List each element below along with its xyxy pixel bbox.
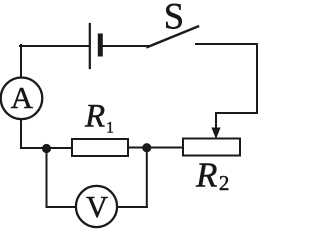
wire top-left horizontal	[20, 45, 89, 47]
svg-text:S: S	[164, 0, 184, 36]
rheostat R2 body	[183, 139, 240, 156]
resistor R1 body	[72, 139, 128, 156]
voltmeter V1 circle	[76, 186, 117, 227]
wire battery to switch	[100, 45, 148, 47]
voltmeter branch: left drop	[46, 149, 48, 207]
svg-text:A: A	[11, 80, 34, 115]
wire jog toward rheostat arrow	[216, 112, 257, 114]
rheostat wiper arrowhead	[211, 128, 220, 140]
wire between R1 and R2	[128, 147, 183, 149]
rheostat wiper arrow shaft	[215, 113, 217, 129]
battery cell: long plate (positive)	[89, 24, 91, 68]
left vertical wire (ammeter to bottom row)	[20, 119, 22, 148]
wire switch to top-right corner	[196, 43, 257, 45]
junction node left (R1 left / voltmeter tap)	[42, 144, 51, 153]
voltmeter branch: right horizontal	[117, 206, 147, 208]
main bottom-row wire left	[21, 147, 72, 149]
voltmeter branch: right riser	[146, 148, 148, 207]
ammeter A1 circle	[1, 78, 43, 120]
switch S blade (open)	[148, 27, 199, 48]
junction node right (R1 right / voltmeter tap)	[142, 143, 151, 152]
voltmeter branch: left horizontal	[47, 206, 77, 208]
battery cell: short thick plate (negative)	[98, 36, 103, 54]
svg-text:V: V	[86, 190, 108, 224]
wire right vertical	[256, 44, 258, 113]
left vertical wire (top, into ammeter)	[20, 45, 22, 78]
